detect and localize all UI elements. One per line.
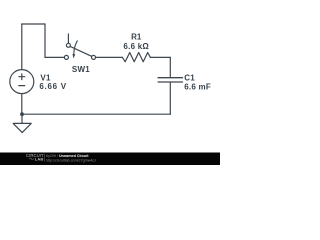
wire — [45, 56, 64, 58]
watermark separator — [43, 154, 45, 162]
wire — [150, 56, 170, 58]
wire — [22, 23, 45, 25]
wire — [96, 56, 123, 58]
voltage source V1 — [10, 70, 34, 94]
svg-text:R1: R1 — [131, 33, 142, 42]
node junction — [20, 112, 24, 116]
resistor R1 — [122, 53, 150, 62]
svg-text:6.66 V: 6.66 V — [39, 82, 66, 91]
wire — [21, 94, 23, 115]
wire — [22, 113, 170, 115]
wire — [169, 57, 171, 77]
svg-text:LAB: LAB — [35, 157, 44, 162]
svg-text:6y209 / Unnamed Circuit: 6y209 / Unnamed Circuit — [46, 154, 89, 158]
wire — [44, 24, 46, 57]
watermark bar — [0, 153, 220, 166]
ground — [13, 114, 31, 132]
svg-text:6.6 mF: 6.6 mF — [184, 82, 211, 91]
svg-text:6.6 kΩ: 6.6 kΩ — [123, 42, 149, 51]
capacitor C1 — [158, 78, 182, 82]
svg-text:C1: C1 — [184, 73, 195, 82]
svg-text:SW1: SW1 — [72, 65, 90, 74]
switch SW1 — [64, 34, 95, 59]
wire — [169, 83, 171, 115]
watermark logo LAB — [29, 158, 34, 160]
svg-text:V1: V1 — [40, 73, 51, 82]
svg-text:http://circuitlab.com/c7gmw4cz: http://circuitlab.com/c7gmw4cz — [46, 159, 96, 163]
wire — [21, 24, 23, 70]
